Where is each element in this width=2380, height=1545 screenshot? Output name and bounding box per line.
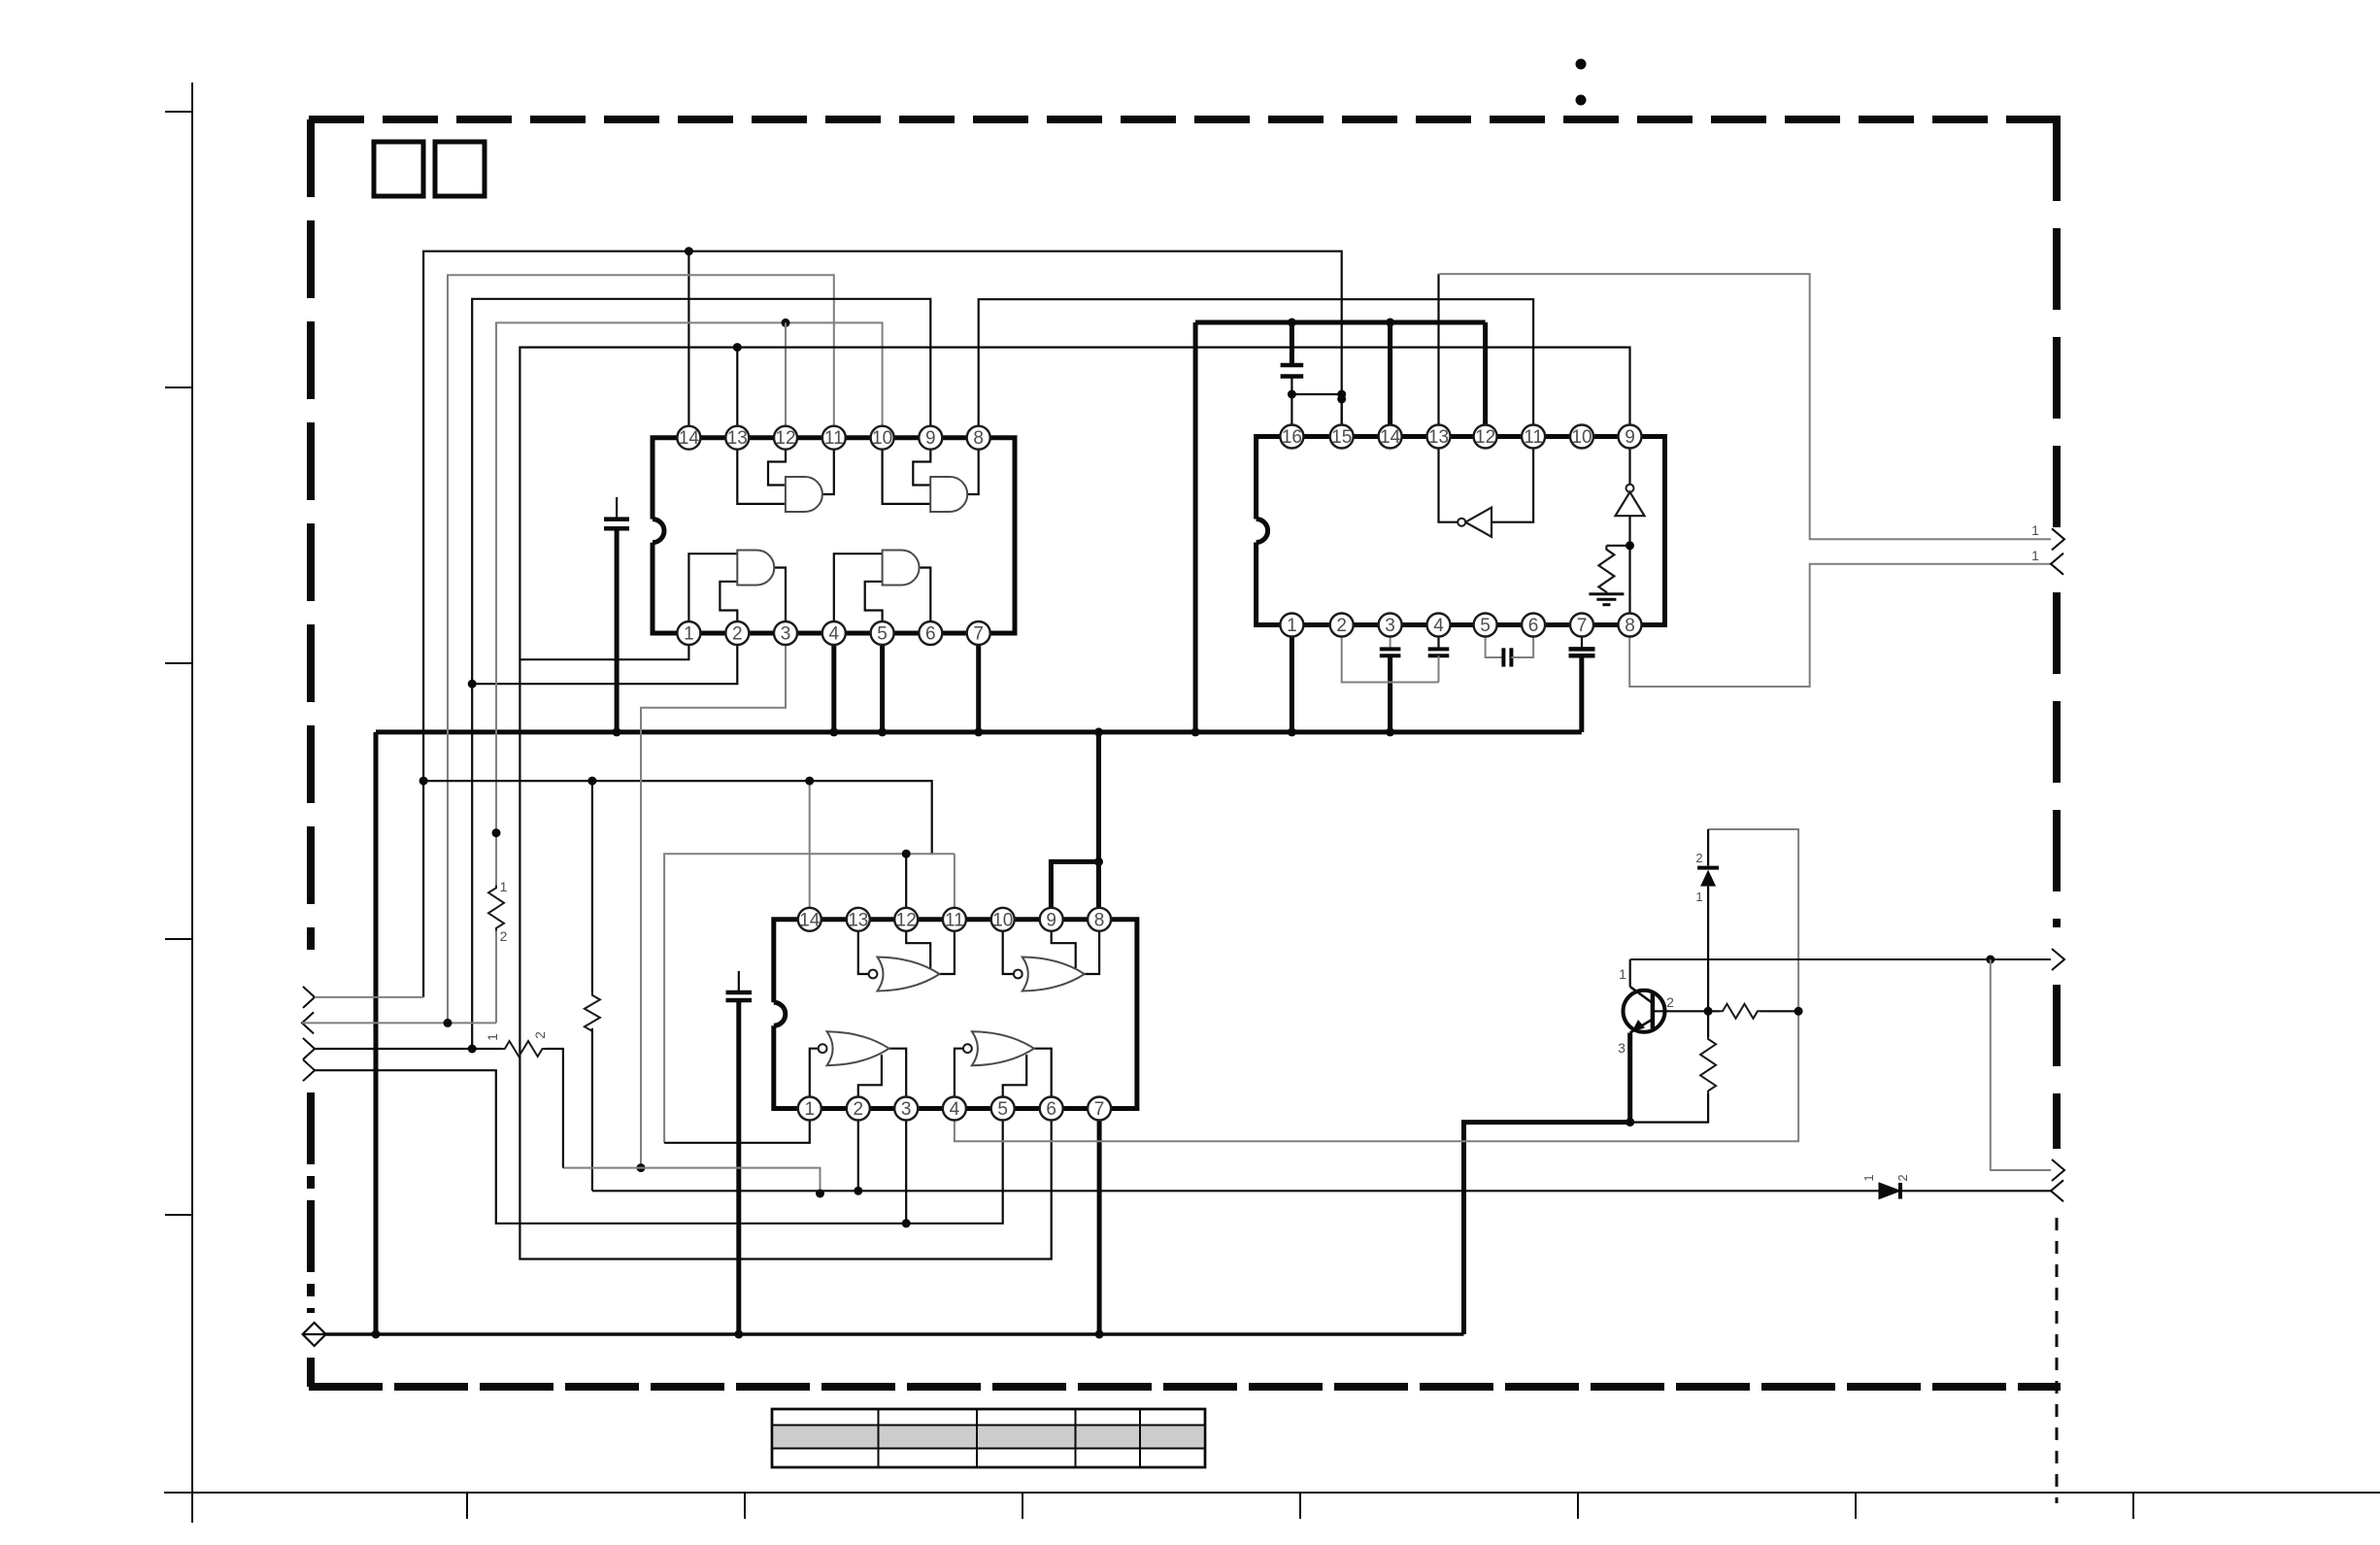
junction bus/IC1 pin5 (878, 727, 887, 736)
wire capacitor C7 bottom to bus corner (1579, 655, 1584, 732)
page frame bottom tick 3 (1022, 1493, 1023, 1519)
wire U3 pin9 to gate F step input (1052, 920, 1076, 968)
IC U3 notch (774, 1002, 786, 1025)
wire bus down to IC3 pin8 (1096, 732, 1101, 920)
gate G input bubble (819, 1044, 827, 1053)
pin U3.3 (894, 1097, 918, 1121)
wire U1 pin9 to gate B upper input (913, 438, 930, 486)
module boundary right dashed edge (lower) (2053, 985, 2061, 1149)
connector chevron 1 (out) (303, 987, 315, 1008)
svg-text:15: 15 (1331, 427, 1352, 448)
IC U1 body (quad AND gate DIP-14) (653, 438, 1015, 633)
junction chevron3/W-C (468, 1045, 477, 1054)
wire capacitor C5 to U2 pin6 (1511, 625, 1533, 658)
wire chevron4 line (315, 1070, 906, 1224)
wire U3 pin5 to gate H step input (1003, 1055, 1027, 1109)
svg-text:4: 4 (1433, 616, 1444, 636)
svg-text:13: 13 (727, 428, 748, 449)
pin U1.4 (822, 621, 846, 645)
net U1 pin3 to chevron3 branch (641, 633, 786, 1168)
wire U2 pin9 to buffer bubble (1628, 437, 1630, 485)
pin U3.7 (1088, 1097, 1111, 1121)
junction bus/C1 (613, 727, 621, 736)
pin U2.8 (1619, 614, 1642, 637)
svg-text:6: 6 (1046, 1099, 1056, 1120)
pin U3.14 (798, 908, 821, 931)
wire R2 to drop (546, 1049, 563, 1168)
pin U3.13 (847, 908, 870, 931)
wire D2 to connector in 2 (1900, 1190, 2051, 1192)
svg-text:7: 7 (1094, 1099, 1105, 1120)
wire IC3 pin7 to bottom rail (1097, 1121, 1102, 1335)
wire U1 pin10 to gate B lower input (883, 438, 931, 504)
capacitor C5 plates (horizontal cap) (1503, 648, 1511, 666)
ground bus horizontal rail (376, 729, 1582, 734)
net W-C: chevron3 to U1 pin9 (472, 299, 930, 1049)
label square 2 (top left) (435, 142, 485, 196)
svg-text:2: 2 (1895, 1174, 1910, 1181)
pin U2.15 (1330, 425, 1354, 449)
wire Q1 base to R5 (1653, 1010, 1720, 1012)
wire U2 pin3 to capacitor C4a (1390, 625, 1391, 650)
svg-text:1: 1 (500, 879, 508, 894)
wire node down to U2 pin15 (1341, 394, 1343, 437)
wire chevron1 to W-A (315, 996, 423, 998)
wire U3 pin4 to gate H bubble (955, 1049, 963, 1109)
connector arrow in 2 (right) (2051, 1180, 2063, 1201)
pin U3.11 (943, 908, 966, 931)
svg-text:10: 10 (992, 910, 1013, 930)
wire U2 pin7 to capacitor C7 (1581, 625, 1583, 650)
junction bottom rail/left bus corner (372, 1330, 381, 1339)
junction W-A/U1 pin14 riser (685, 247, 693, 255)
wire gate G output to U3 pin3 (888, 1049, 907, 1109)
capacitor C4b plates (1428, 649, 1450, 655)
wire U1 pin14 riser (687, 252, 689, 438)
junction frame/base resistor (1794, 1007, 1803, 1016)
wire capacitor C3 bottom to bottom rail (736, 1000, 741, 1334)
svg-text:3: 3 (901, 1099, 912, 1120)
pin U1.10 (871, 426, 894, 450)
wire gate F output to U3 pin8 (1084, 920, 1099, 974)
wire IC2 top supply rail (1195, 320, 1486, 325)
svg-text:2: 2 (532, 1031, 548, 1039)
module boundary right dashed edge (upper) (2053, 119, 2061, 527)
pin U2.10 (1570, 425, 1593, 449)
net U3 pin1 link (664, 1121, 810, 1143)
wire gate D output to U1 pin6 (920, 568, 930, 634)
diode D1 (vertical, above transistor) (1697, 868, 1719, 887)
resistor R2 (horizontal, chevron3 line) (502, 1041, 546, 1057)
net y1227: R4 column to connector in 2 (592, 1190, 1879, 1192)
wire resistor R4 column upper (591, 781, 593, 992)
page frame left tick 2 (165, 386, 192, 388)
wire U3 pin3 riser (905, 1109, 907, 1224)
svg-text:12: 12 (896, 910, 917, 930)
resistor R4 (vertical, mid left) (585, 992, 600, 1034)
wire base node to R6 (1707, 1011, 1709, 1037)
page dot upper (top right) (1576, 59, 1587, 70)
pin U3.1 (798, 1097, 821, 1121)
wire capacitor C4 bottom to bus (1388, 655, 1392, 732)
wire U1 pin12 riser (785, 322, 787, 437)
junction y1227/U3 pin2 riser (854, 1187, 862, 1195)
pin U3.4 (943, 1097, 966, 1121)
wire U2 pin2 elbow to C4b bottom (1342, 625, 1439, 683)
gate F input bubble (1014, 970, 1022, 979)
pin U2.16 (1280, 425, 1303, 449)
wire U3 pin14 riser (809, 781, 811, 920)
pin U2.9 (1619, 425, 1642, 449)
junction W-A at y804 tap (419, 777, 428, 786)
resistor R6 (vertical below base) (1700, 1037, 1716, 1092)
resistor R1 (in W-D column) (488, 885, 504, 931)
page frame bottom tick 5 (1577, 1493, 1579, 1519)
page frame left tick 4 (165, 938, 192, 940)
svg-text:12: 12 (1475, 427, 1495, 448)
net W-B: chevron2 to U1 pin11 (448, 275, 834, 1023)
wire U1 pin5 to gate D lower input (865, 582, 883, 633)
module boundary left dashed edge (upper) (307, 119, 315, 950)
wire capacitor C1 column to bus (615, 528, 620, 732)
pin U1.3 (774, 621, 797, 645)
wire U3 pin2 to gate G step input (858, 1055, 882, 1109)
net W-D upper segment (496, 322, 883, 885)
junction W-C/U1 pin2 tap (468, 680, 477, 689)
module boundary left dash-dot edge (lower a) (307, 1092, 315, 1313)
svg-text:1: 1 (2031, 548, 2039, 563)
pin U2.4 (1427, 614, 1451, 637)
svg-text:11: 11 (945, 910, 964, 930)
module boundary right thin dashed edge (lower) (2056, 1218, 2059, 1503)
pin U2.5 (1474, 614, 1497, 637)
svg-text:1: 1 (1695, 890, 1702, 904)
wire supply rail down to IC2 pin12 (1483, 322, 1488, 425)
wire IC2 supply riser to bus (1193, 322, 1198, 732)
wire y879 corner to U3 pin11 (954, 854, 955, 920)
pin U1.8 (967, 426, 990, 450)
page frame left border line (191, 83, 193, 1523)
capacitor C4a plates (1380, 649, 1401, 655)
wire supply rail down to IC2 pin14 (1388, 322, 1392, 425)
junction emitter/R6 line (1626, 1118, 1634, 1126)
wire chevron4 line corner to U3 pin5 (906, 1109, 1002, 1224)
label square 1 (top left) (374, 142, 423, 196)
svg-text:9: 9 (1625, 427, 1635, 448)
pin U1.7 (967, 621, 990, 645)
wire U3 pin12 to gate E step input (906, 920, 930, 968)
pin U1.12 (774, 426, 797, 450)
junction chevron4 line/U3 pin3 riser (902, 1219, 911, 1227)
wire U1 pin12 to gate A upper input (768, 438, 786, 486)
svg-text:1: 1 (1287, 616, 1297, 636)
junction bus/IC2 pin1 (1288, 727, 1296, 736)
pin U1.6 (919, 621, 942, 645)
resistor R3 (inside U2 to ground) (1598, 546, 1614, 595)
junction base node/D1 (1704, 1007, 1713, 1016)
wire U1 pin13 riser (736, 348, 738, 438)
pin U1.9 (919, 426, 942, 450)
wire chevron3 to resistor R2 (315, 1048, 502, 1050)
net U3 pin4 to transistor frame (955, 829, 1798, 1141)
wire U1 pin2 to gate C lower input (720, 582, 737, 633)
pin U1.5 (871, 621, 894, 645)
pin U3.8 (1088, 908, 1111, 931)
wire U1 pin1 to gate C upper input (688, 554, 737, 633)
net W-E: U2 pin9 / U1 pin13 / U1 pin1 / U3 pin6 (520, 348, 1629, 1260)
pin U1.14 (677, 426, 700, 450)
page frame bottom tick 4 (1299, 1493, 1301, 1519)
pin U2.7 (1570, 614, 1593, 637)
IC U2 body (DIP-16) (1257, 437, 1665, 625)
NOR gate H (U3 pins 4,5->6) (972, 1031, 1034, 1065)
buffer U2B (up-pointing inverter) (1616, 485, 1645, 517)
junction bottom rail/IC3 pin7 (1095, 1330, 1104, 1339)
net U2 pin8 to connector in 1 (1629, 564, 2051, 687)
svg-text:9: 9 (1046, 910, 1056, 930)
junction supply rail/pin14 branch (1386, 319, 1394, 327)
transistor Q1 (PNP, mirrored) (1624, 987, 1665, 1033)
wire Q1 collector up (1629, 959, 1631, 987)
ground symbol (1589, 594, 1624, 605)
module boundary left dash-dot edge (lower b) (307, 1358, 315, 1387)
wire IC2 pin1 to bus (1290, 625, 1294, 732)
page frame bottom tick 1 (466, 1493, 468, 1519)
page dot lower (top right) (1576, 95, 1587, 106)
net W-A: left bundle / U1 pin14 / U2 pin15 (423, 252, 1342, 997)
NOR gate G (U3 pins 1,2->3) (827, 1031, 889, 1065)
wire U3 pin2 riser (857, 1109, 859, 1192)
wire branch down to connector out 3 (1991, 959, 2051, 1170)
inverter U2A (left-pointing) (1458, 508, 1492, 537)
wire gate A output to U1 pin11 (822, 438, 834, 494)
svg-text:11: 11 (824, 428, 844, 449)
svg-text:2: 2 (1336, 616, 1347, 636)
capacitor C7 plates (1569, 649, 1595, 655)
NOR gate F (U3 pins 10,9->8) (1022, 957, 1085, 991)
svg-text:1: 1 (485, 1033, 500, 1041)
svg-text:2: 2 (1695, 851, 1702, 865)
svg-text:8: 8 (1625, 616, 1635, 636)
junction chevron2/W-B (444, 1019, 453, 1027)
wire C2 bottom to junction (1291, 377, 1292, 395)
wire bus left corner vertical to bottom rail (374, 732, 379, 1334)
page frame left tick 5 (165, 1214, 192, 1216)
svg-text:11: 11 (1524, 427, 1543, 448)
svg-text:1: 1 (2031, 522, 2039, 538)
wire R6 bottom to emitter line (1630, 1092, 1708, 1122)
junction y804/U3 pin14 riser (805, 777, 814, 786)
junction collector line branch (1986, 956, 1995, 964)
AND gate C (U1 pins 1,2->3) (737, 551, 774, 586)
pin U2.3 (1379, 614, 1402, 637)
junction bus/IC3 pin8 column (1094, 727, 1103, 736)
net W-D: chevron2 riser to U1 pins 12,10 (495, 931, 497, 1024)
junction pin15 node (1337, 390, 1346, 399)
bottom rail from diamond (326, 1332, 1464, 1336)
pin U3.12 (894, 908, 918, 931)
svg-text:7: 7 (973, 624, 984, 645)
wire transistor emitter return to bottom rail (1464, 1123, 1630, 1334)
connector arrow out 2 (right) (2052, 949, 2064, 970)
svg-text:10: 10 (1571, 427, 1592, 448)
svg-text:2: 2 (732, 624, 743, 645)
wire gate C output to U1 pin3 (774, 568, 786, 634)
junction supply rail/C2 branch (1288, 319, 1296, 327)
revision table (772, 1409, 1205, 1467)
pin U1.13 (725, 426, 749, 450)
svg-text:2: 2 (854, 1099, 864, 1120)
page frame bottom tick 6 (1855, 1493, 1857, 1519)
wire gate E output to U3 pin11 (939, 920, 955, 974)
pin U3.5 (991, 1097, 1015, 1121)
wire C4b bottom stub (1438, 655, 1440, 682)
wire R5 to frame column (1760, 1010, 1798, 1012)
svg-text:14: 14 (679, 428, 700, 449)
svg-text:3: 3 (1385, 616, 1395, 636)
wire U1 pin1 elbow to W-E (520, 633, 688, 659)
wire U1 pin4 to gate D upper input (834, 554, 883, 633)
svg-text:7: 7 (1577, 616, 1588, 636)
pin U2.13 (1427, 425, 1451, 449)
pin U3.6 (1040, 1097, 1063, 1121)
page frame left tick 1 (165, 111, 192, 113)
net W-G: to connector out 1 (1439, 274, 2052, 539)
svg-text:1: 1 (1861, 1174, 1876, 1181)
net gray y879: riser to U3 pins 12,11 (664, 854, 955, 1143)
wire junction to pin15 node (1291, 393, 1341, 395)
junction buffer output/resistor branch (1626, 541, 1634, 550)
connector arrow in 1 (right) (2051, 554, 2063, 575)
svg-text:1: 1 (1619, 966, 1626, 982)
net y804: W-A tap to resistor R4 and IC3 area (423, 781, 932, 854)
AND gate B (U1 pins 10,9->8) (930, 477, 967, 512)
junction C2/pin16 node (1288, 390, 1296, 399)
svg-text:16: 16 (1282, 427, 1302, 448)
gate H input bubble (963, 1044, 972, 1053)
wire D1 anode to base node (1707, 887, 1709, 1012)
wire U3 pin10 to gate F bubble (1003, 920, 1014, 974)
wire IC1 pin4 to bus (831, 633, 836, 732)
page frame bottom tick 7 (2132, 1493, 2134, 1519)
svg-text:3: 3 (781, 624, 791, 645)
svg-text:14: 14 (799, 910, 821, 930)
connector arrow out 1 (right) (2052, 528, 2064, 550)
wire U2 pin5 to capacitor C5 (1486, 625, 1504, 658)
svg-text:8: 8 (973, 428, 984, 449)
junction bus/IC1 pin4 (829, 727, 838, 736)
gate E input bubble (869, 970, 878, 979)
module boundary top dashed edge (309, 116, 2061, 123)
wire supply rail down to capacitor C2 (1290, 322, 1294, 365)
connector chevron 3 (out) (303, 1038, 315, 1059)
diode D2 (on y1227 line) (1879, 1183, 1900, 1199)
svg-text:13: 13 (1428, 427, 1449, 448)
junction y804/resistor R4 column (587, 777, 596, 786)
svg-text:4: 4 (950, 1099, 960, 1120)
junction IC3 pin8 column/pin9 elbow (1094, 857, 1103, 866)
wire U3 pin13 to gate E bubble (858, 920, 869, 974)
svg-text:6: 6 (1528, 616, 1539, 636)
net W-G: U2 pin13 riser (1437, 274, 1439, 436)
wire elbow IC3 pin9 to pin8 column (1051, 861, 1098, 920)
connector chevron 2 (in) (302, 1012, 314, 1033)
pin U1.2 (725, 621, 749, 645)
junction y879/U3 pin12 riser (902, 850, 911, 858)
svg-text:4: 4 (829, 624, 840, 645)
wire IC1 pin5 to bus (880, 633, 885, 732)
junction bottom rail/C3 (734, 1330, 743, 1339)
wire Q1 emitter down (1627, 1033, 1632, 1123)
AND gate A (U1 pins 13,12->11) (786, 477, 822, 512)
connector chevron 4 (out) (303, 1059, 315, 1081)
junction W-E/U1 pin13 riser (733, 343, 742, 352)
capacitor C2 plates (above U2) (1281, 365, 1304, 377)
svg-text:13: 13 (848, 910, 868, 930)
IC U2 notch (1257, 520, 1268, 543)
AND gate D (U1 pins 4,5->6) (883, 551, 920, 586)
pin U1.1 (677, 621, 700, 645)
svg-text:2: 2 (1666, 994, 1674, 1010)
wire IC1 pin7 to bus (976, 633, 981, 732)
svg-text:14: 14 (1380, 427, 1401, 448)
connector arrow out 3 (right) (2052, 1159, 2064, 1181)
net W-F: U1 pin8 to U2 pin11 (979, 299, 1533, 438)
svg-text:10: 10 (872, 428, 892, 449)
junction y1202/y1229 (816, 1190, 824, 1198)
svg-text:1: 1 (805, 1099, 816, 1120)
net collector to connector out 2 (1630, 958, 2051, 960)
wire U3 pin12 riser (905, 854, 907, 920)
IC U3 body (quad NOR DIP-14) (774, 920, 1137, 1109)
wire node down to U2 pin16 (1291, 394, 1292, 437)
svg-text:8: 8 (1094, 910, 1105, 930)
svg-text:2: 2 (500, 928, 508, 944)
pin U3.9 (1040, 908, 1063, 931)
junction W-A at node above pin15 (1337, 395, 1346, 404)
svg-text:5: 5 (997, 1099, 1008, 1120)
svg-text:6: 6 (925, 624, 936, 645)
junction W-D/R2 tap (492, 828, 501, 837)
pin U2.14 (1379, 425, 1402, 449)
pin U3.10 (991, 908, 1015, 931)
wire U2 pin4 to capacitor C4b (1437, 625, 1439, 650)
pin U2.2 (1330, 614, 1354, 637)
wire U2 pin13 to inverter bubble (1439, 437, 1458, 522)
pin U3.2 (847, 1097, 870, 1121)
capacitor C3 (left of IC3) (726, 971, 753, 1000)
svg-text:5: 5 (877, 624, 888, 645)
wire gate B output to U1 pin8 (967, 438, 979, 494)
wire chevron2 to W-B and W-D (302, 1022, 496, 1024)
wire resistor R4 column lower (591, 1028, 593, 1192)
wire U1 pin2 elbow to W-C (472, 633, 737, 684)
wire buffer output to U2 pin8 (1628, 516, 1630, 624)
page frame bottom border line (164, 1492, 2380, 1494)
junction bus/C4 (1386, 727, 1394, 736)
pin U2.6 (1522, 614, 1545, 637)
svg-text:5: 5 (1480, 616, 1491, 636)
page frame bottom tick 2 (744, 1493, 746, 1519)
svg-text:12: 12 (775, 428, 795, 449)
wire U3 pin1 to gate G bubble (810, 1049, 819, 1109)
resistor R5 (horizontal at base) (1720, 1004, 1760, 1019)
wire U2 pin11 to inverter input (1492, 437, 1533, 522)
wire resistor R3 top branch (1606, 545, 1629, 547)
junction U1 pin3 branch / chevron3 line (637, 1163, 646, 1172)
pin U1.11 (822, 426, 846, 450)
module boundary bottom dashed edge (309, 1383, 2061, 1391)
